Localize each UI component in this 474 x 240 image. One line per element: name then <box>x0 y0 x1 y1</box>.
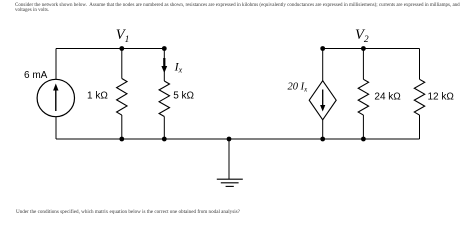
wire 5k branch top <box>163 49 165 82</box>
wire 5k branch bottom <box>163 117 165 140</box>
wire 24k branch top <box>362 49 364 80</box>
svg-text:Ix: Ix <box>174 59 183 74</box>
wire 12k branch bottom <box>419 115 421 139</box>
node V1 <box>119 46 124 51</box>
svg-text:V2: V2 <box>355 27 369 45</box>
dependent current source 20 Ix <box>309 81 336 120</box>
current arrow Ix <box>161 58 167 73</box>
resistor 1 kΩ <box>117 79 127 116</box>
current source 6 mA <box>37 79 74 116</box>
svg-text:5 kΩ: 5 kΩ <box>173 90 194 101</box>
wire 1k branch top <box>121 49 123 79</box>
resistor 5 kΩ <box>159 81 169 117</box>
resistor 12 kΩ <box>414 79 424 115</box>
junction bottom of 1k branch <box>119 137 124 142</box>
wire left vertical below source <box>55 117 57 140</box>
node V2 <box>361 46 366 51</box>
junction top of 5k branch <box>162 46 167 51</box>
wire 24k branch bottom <box>362 115 364 139</box>
svg-text:V1: V1 <box>116 27 130 45</box>
wire 1k branch bottom <box>121 115 123 139</box>
svg-text:1 kΩ: 1 kΩ <box>87 90 108 101</box>
wire 12k branch top <box>419 49 421 80</box>
svg-text:24 kΩ: 24 kΩ <box>374 91 401 102</box>
svg-text:12 kΩ: 12 kΩ <box>428 91 455 102</box>
wire top-right segment <box>323 48 420 50</box>
svg-text:20 Ix: 20 Ix <box>288 81 309 93</box>
junction bottom of dependent source <box>320 137 325 142</box>
junction bottom of 24k branch <box>361 137 366 142</box>
wire dependent source bottom <box>322 120 324 139</box>
junction bottom of 5k branch <box>162 137 167 142</box>
junction ground node <box>227 137 232 142</box>
question bottom text <box>16 210 240 215</box>
problem statement top text <box>15 3 460 13</box>
ground <box>217 139 243 186</box>
resistor 24 kΩ <box>358 79 368 115</box>
wire top-left segment <box>56 48 164 50</box>
wire dependent source top <box>322 49 324 81</box>
wire bottom rail <box>56 138 420 140</box>
svg-text:6 mA: 6 mA <box>24 70 48 81</box>
junction top of dependent source <box>320 46 325 51</box>
wire left vertical above source <box>55 49 57 80</box>
